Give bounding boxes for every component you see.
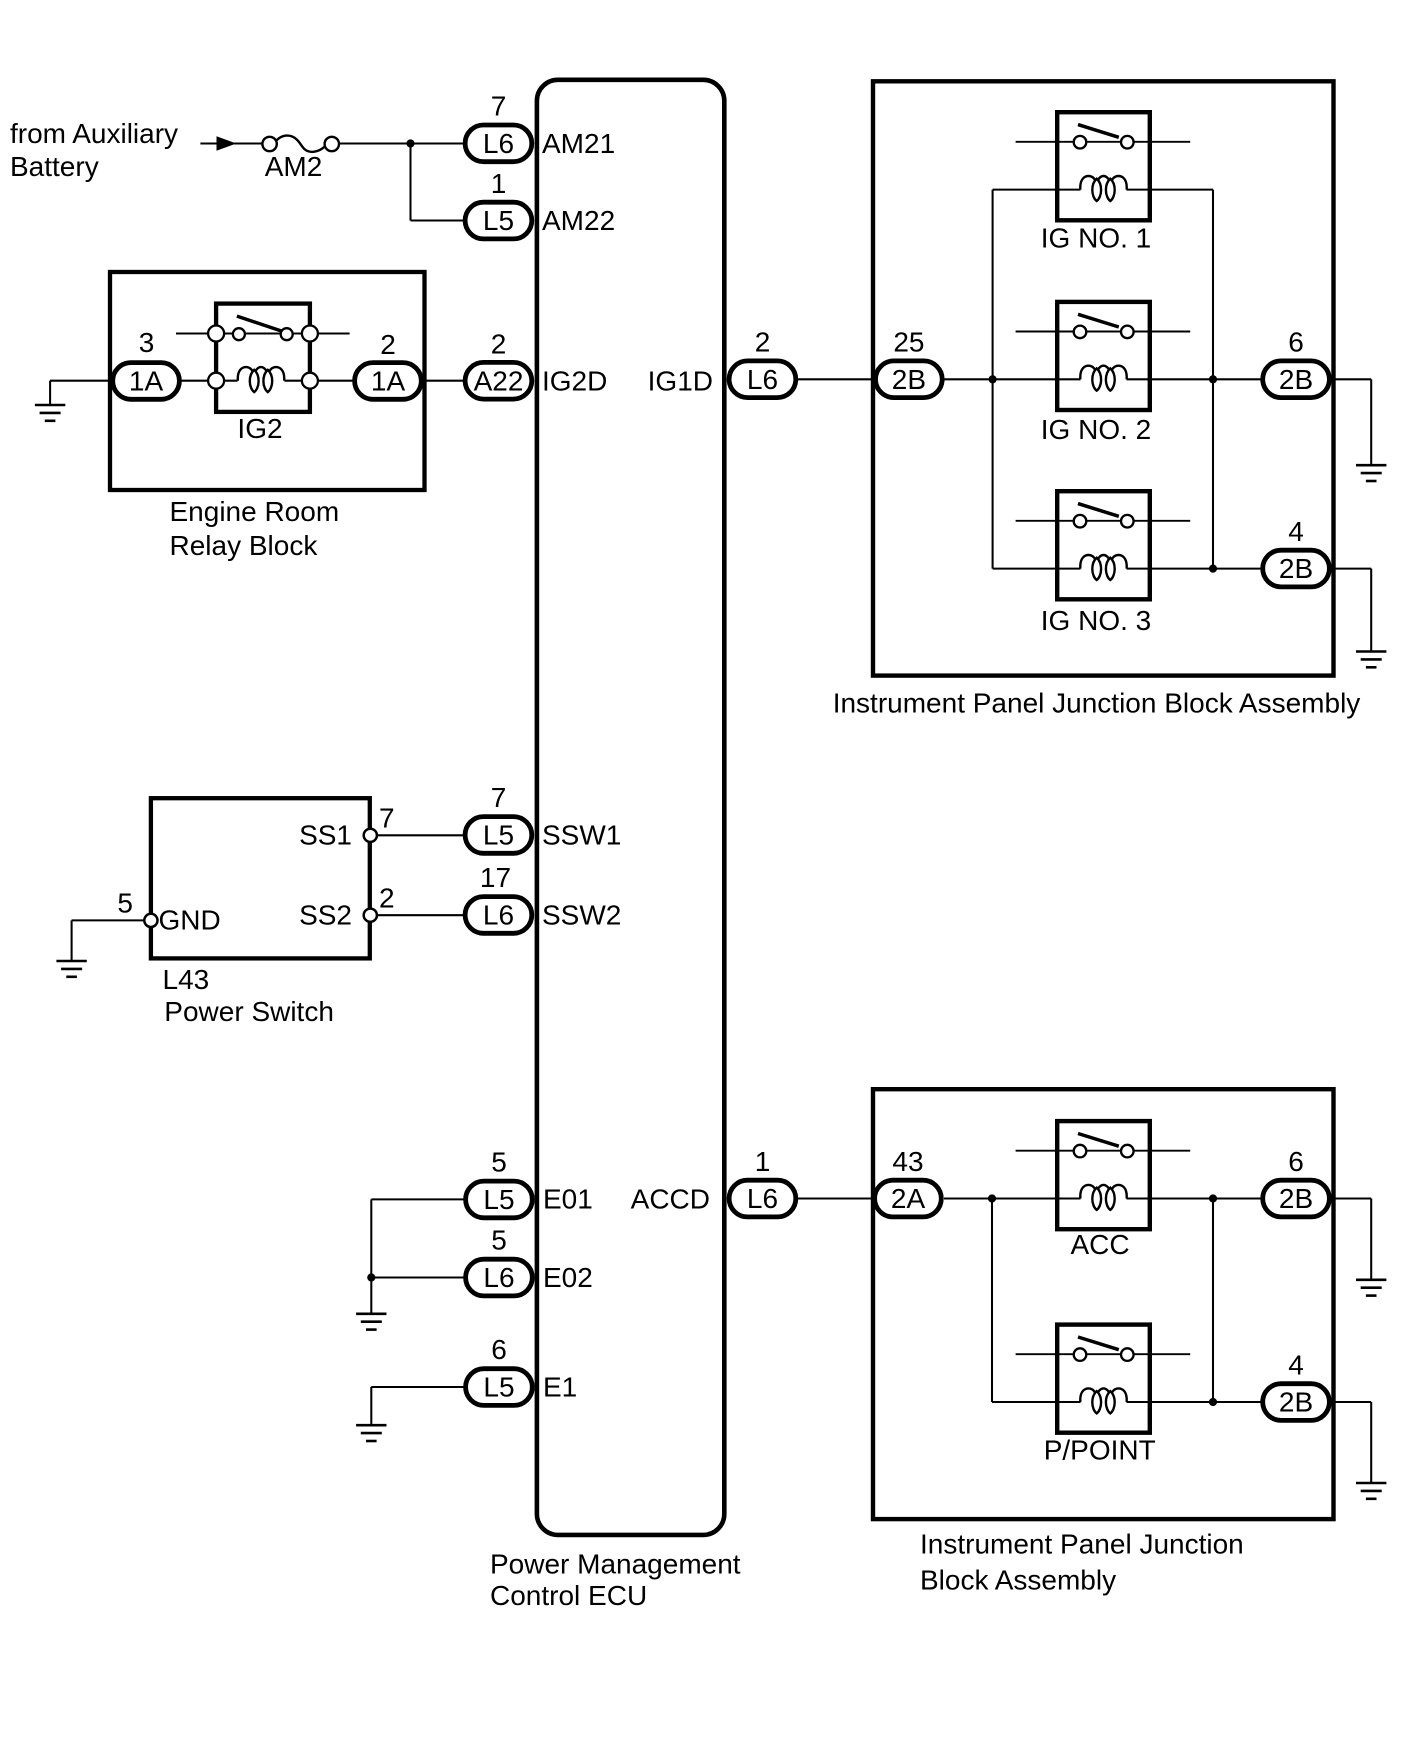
junction dot left (bottom block): [988, 1194, 996, 1202]
wire battery feed to fuse: [200, 142, 264, 144]
wire E01: [371, 1198, 499, 1200]
wire relay IG2 switch row: [176, 332, 350, 334]
connector L5 (E01): [466, 1181, 533, 1218]
fuse AM2: [262, 136, 339, 152]
svg-text:E01: E01: [543, 1184, 593, 1215]
svg-text:Instrument Panel Junction: Instrument Panel Junction: [920, 1529, 1244, 1560]
svg-text:2: 2: [755, 327, 771, 358]
svg-text:2B: 2B: [1279, 553, 1313, 584]
power switch box L43: [151, 798, 370, 958]
wire 2B pin6 to ground: [1296, 378, 1371, 380]
svg-text:L6: L6: [483, 900, 514, 931]
wire E1 down: [370, 1387, 372, 1425]
wire E01/E02 down: [370, 1199, 372, 1313]
junction dot right P/POINT: [1209, 1398, 1217, 1406]
svg-text:1A: 1A: [371, 366, 406, 397]
svg-text:2: 2: [380, 329, 396, 360]
svg-text:2: 2: [491, 328, 507, 359]
wire left vertical (top block): [992, 190, 994, 569]
wire E02: [371, 1276, 499, 1278]
svg-text:IG NO. 3: IG NO. 3: [1041, 605, 1151, 636]
wire 1A pin3 to relay coil: [146, 380, 238, 382]
relay IG NO. 2: [1016, 302, 1191, 410]
wire P/POINT coil left: [992, 1401, 1081, 1403]
svg-text:Battery: Battery: [10, 151, 99, 182]
wire fuse to AM21: [339, 142, 463, 144]
wire right vertical (top block): [1212, 190, 1214, 569]
connector L5 (SSW1): [465, 817, 532, 854]
wire down to ground: [1370, 1199, 1372, 1280]
svg-text:6: 6: [1288, 1146, 1304, 1177]
terminal SS2: [364, 909, 377, 922]
svg-text:6: 6: [491, 1334, 507, 1365]
svg-text:7: 7: [379, 803, 395, 834]
ground (2B pin6 top): [1356, 465, 1386, 481]
svg-text:2B: 2B: [1279, 1183, 1313, 1214]
connector L5 (E1): [466, 1369, 533, 1406]
svg-text:IG NO. 2: IG NO. 2: [1041, 414, 1151, 445]
terminal GND: [144, 914, 157, 927]
svg-text:5: 5: [491, 1225, 507, 1256]
svg-text:IG1D: IG1D: [648, 365, 713, 396]
ground (E1): [356, 1425, 386, 1441]
svg-text:E1: E1: [543, 1371, 577, 1402]
wire 1A pin3 to ground: [50, 380, 146, 382]
wire SS1 to SSW1: [377, 834, 463, 836]
connector L6 (ACCD out): [729, 1180, 796, 1217]
wire 2A to ACC coil: [944, 1197, 1081, 1199]
ground (2B pin4 bottom): [1356, 1483, 1386, 1499]
wire branch to AM22: [411, 219, 464, 221]
wire down to ground: [1370, 379, 1372, 465]
wire IG1D L6 to 2B: [763, 378, 909, 380]
svg-text:Engine Room: Engine Room: [170, 496, 340, 527]
svg-text:IG2D: IG2D: [542, 365, 607, 396]
svg-text:AM22: AM22: [542, 205, 615, 236]
svg-text:7: 7: [491, 782, 507, 813]
ground (2B pin6 bottom): [1356, 1280, 1386, 1296]
svg-text:SSW1: SSW1: [542, 819, 621, 850]
connector 2B pin 4 (bottom): [1263, 1384, 1330, 1421]
wire right vertical (bottom block): [1212, 1199, 1214, 1403]
junction dot right IG NO.2: [1209, 375, 1217, 383]
wire P/POINT coil to 2B pin4: [1127, 1401, 1297, 1403]
svg-text:Block Assembly: Block Assembly: [920, 1565, 1116, 1596]
connector 1A pin 2: [355, 363, 422, 400]
connector 2B pin 25: [876, 361, 943, 398]
Engine Room Relay Block box: [110, 272, 425, 490]
svg-text:L43: L43: [163, 964, 210, 995]
svg-text:Power Switch: Power Switch: [164, 996, 334, 1027]
svg-text:7: 7: [491, 91, 507, 122]
svg-text:2B: 2B: [1279, 364, 1313, 395]
wire branch down to AM22: [409, 144, 411, 221]
wire GND to ground: [72, 919, 145, 921]
svg-text:Instrument Panel Junction Bloc: Instrument Panel Junction Block Assembly: [833, 688, 1361, 719]
svg-text:1: 1: [755, 1146, 771, 1177]
relay IG NO. 3: [1016, 491, 1191, 599]
connector A22 (IG2D): [465, 362, 532, 399]
svg-text:L5: L5: [483, 1184, 514, 1215]
ECU box: Power Management Control ECU: [537, 80, 724, 1535]
svg-text:AM2: AM2: [265, 151, 323, 182]
relay P/POINT: [1016, 1325, 1191, 1433]
svg-text:6: 6: [1288, 327, 1304, 358]
Instrument Panel Junction Block Assembly (bottom) box: [873, 1089, 1334, 1519]
svg-text:Power Management: Power Management: [490, 1549, 741, 1580]
svg-text:2B: 2B: [1279, 1387, 1313, 1418]
wire IG NO.1 coil right: [1127, 189, 1214, 191]
svg-text:1: 1: [491, 168, 507, 199]
connector L5 (AM22): [465, 202, 532, 239]
relay IG2: [208, 304, 318, 412]
arrow feed direction: [217, 136, 237, 151]
svg-text:A22: A22: [474, 365, 524, 396]
wire 2B pin6 to ground (bottom): [1296, 1197, 1371, 1199]
svg-text:GND: GND: [159, 905, 221, 936]
terminal SS1: [364, 829, 377, 842]
svg-text:AM21: AM21: [542, 128, 615, 159]
Instrument Panel Junction Block Assembly (top) box: [873, 81, 1334, 675]
wire down to ground: [49, 381, 51, 405]
svg-text:2B: 2B: [892, 364, 926, 395]
wire E1: [371, 1386, 499, 1388]
svg-text:ACCD: ACCD: [631, 1184, 710, 1215]
wire SS2 to SSW2: [377, 914, 463, 916]
svg-text:Control ECU: Control ECU: [490, 1580, 647, 1611]
wire 2B to IG NO.2 coil: [945, 378, 1081, 380]
svg-text:P/POINT: P/POINT: [1044, 1435, 1156, 1466]
junction dot left (top block): [989, 375, 997, 383]
relay ACC: [1016, 1121, 1191, 1229]
connector 2B pin 6 (top): [1263, 361, 1330, 398]
svg-text:4: 4: [1288, 516, 1304, 547]
svg-text:3: 3: [139, 327, 155, 358]
svg-text:L6: L6: [483, 1262, 514, 1293]
connector 2B pin 4 (top): [1263, 550, 1330, 587]
wire down to ground: [71, 920, 73, 961]
svg-text:L6: L6: [483, 128, 514, 159]
wire left vertical (bottom block): [991, 1199, 993, 1403]
svg-text:SS1: SS1: [299, 819, 352, 850]
connector 2A pin 43: [875, 1180, 942, 1217]
wire 2B pin4 to ground (bottom): [1296, 1401, 1371, 1403]
wire ACCD L6 to 2A: [763, 1197, 909, 1199]
junction dot right ACC: [1209, 1194, 1217, 1202]
wire 2B pin4 to ground: [1296, 568, 1371, 570]
junction dot AM2 branch: [406, 139, 414, 147]
connector 1A pin 3: [113, 363, 180, 400]
svg-text:L5: L5: [483, 1372, 514, 1403]
svg-text:25: 25: [893, 327, 924, 358]
relay IG NO. 1: [1016, 112, 1191, 220]
svg-text:2: 2: [379, 883, 395, 914]
connector L6 (IG1D out): [729, 361, 796, 398]
wire down to ground: [1370, 1402, 1372, 1483]
svg-text:43: 43: [892, 1146, 923, 1177]
connector L6 (AM21): [465, 125, 532, 162]
svg-text:from Auxiliary: from Auxiliary: [10, 118, 178, 149]
svg-text:ACC: ACC: [1070, 1229, 1129, 1260]
junction dot E01/E02: [367, 1273, 375, 1281]
ground (2B pin4 top): [1356, 652, 1386, 668]
svg-text:SS2: SS2: [299, 899, 352, 930]
svg-text:17: 17: [480, 862, 511, 893]
svg-text:1A: 1A: [129, 366, 164, 397]
junction dot right IG NO.3: [1209, 565, 1217, 573]
svg-text:L5: L5: [483, 205, 514, 236]
svg-text:2A: 2A: [891, 1183, 926, 1214]
wire IG NO.3 coil to 2B pin4: [1127, 568, 1297, 570]
svg-text:L6: L6: [747, 364, 778, 395]
svg-text:L6: L6: [747, 1183, 778, 1214]
svg-text:5: 5: [491, 1147, 507, 1178]
svg-text:SSW2: SSW2: [542, 899, 621, 930]
ground (engine room relay block): [35, 405, 65, 421]
svg-text:4: 4: [1288, 1350, 1304, 1381]
svg-text:Relay Block: Relay Block: [170, 530, 319, 561]
svg-text:E02: E02: [543, 1262, 593, 1293]
ground (power switch): [56, 961, 86, 977]
svg-text:IG NO. 1: IG NO. 1: [1041, 223, 1151, 254]
connector L6 (SSW2): [465, 897, 532, 934]
wire ACC coil to 2B pin6: [1127, 1197, 1297, 1199]
wire IG NO.1 coil left: [993, 189, 1081, 191]
svg-text:IG2: IG2: [237, 413, 282, 444]
wire IG NO.2 coil to 2B pin6: [1127, 378, 1297, 380]
ground (E01/E02): [356, 1314, 386, 1330]
wire relay coil to 1A pin2 / A22: [285, 380, 500, 382]
connector 2B pin 6 (bottom): [1263, 1180, 1330, 1217]
svg-text:5: 5: [117, 888, 133, 919]
svg-text:L5: L5: [483, 820, 514, 851]
wire down to ground: [1370, 569, 1372, 652]
connector L6 (E02): [466, 1259, 533, 1296]
wire IG NO.3 coil left: [993, 568, 1081, 570]
